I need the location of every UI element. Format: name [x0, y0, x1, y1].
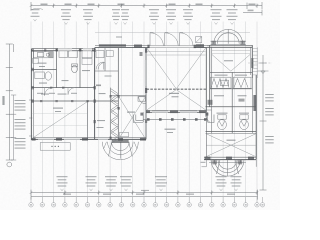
closet labels	[215, 75, 248, 76]
hall label	[41, 94, 67, 95]
deck posts	[147, 118, 207, 121]
washroom door arc	[98, 63, 105, 70]
washroom label	[97, 120, 106, 128]
left small vertical label	[2, 96, 4, 105]
interior wall: entry top y96	[110, 95, 146, 97]
wall blob left of living	[140, 52, 143, 56]
entrance step slab	[112, 140, 129, 143]
bedroom floor lines	[212, 50, 251, 53]
west wall posts	[145, 48, 147, 93]
closet left inner box	[221, 80, 229, 85]
exterior wall: left	[31, 49, 33, 140]
top bay planter right	[240, 41, 245, 45]
garage label	[227, 140, 236, 141]
bottom dimension tick slashes	[30, 191, 259, 194]
exterior wall: right lower	[252, 75, 256, 159]
entrance porch extra spokes	[104, 142, 138, 149]
corridor door arc right wing	[204, 110, 211, 122]
top annotation text stacks	[31, 9, 238, 24]
tatami mat lines	[32, 114, 87, 126]
garage mid line	[206, 144, 255, 146]
deck label	[165, 129, 176, 133]
right dashed reference line	[248, 62, 272, 64]
entry door arc	[139, 97, 146, 104]
wc fixture	[72, 64, 78, 73]
entry room diagonals	[119, 97, 145, 139]
exterior wall: right upper	[250, 45, 252, 78]
veranda edge	[40, 143, 70, 151]
right wing dark blob left	[208, 100, 213, 105]
interior wall: horizontal mid left wing	[32, 87, 95, 89]
window openings top wall left	[58, 48, 92, 51]
interior wall: vertical x56	[56, 49, 58, 88]
north door arc D2	[165, 33, 178, 46]
hall labels right wing	[214, 95, 247, 96]
kitchen counter	[34, 52, 54, 58]
top-right flag marker	[248, 10, 254, 12]
bottom dimension figures	[63, 190, 235, 195]
washroom box 2	[106, 51, 113, 57]
deck rail	[143, 112, 207, 122]
left grid bubble	[7, 162, 12, 167]
deck corner bracket left	[134, 115, 144, 123]
stair wall post	[117, 107, 119, 110]
closet right with hangers	[234, 77, 252, 88]
top bay window arc	[211, 29, 247, 44]
bedroom label	[224, 60, 233, 61]
small note above wall	[116, 37, 122, 38]
interior wall: washroom divider y71	[95, 70, 119, 72]
hall door arc 2	[68, 88, 75, 95]
stair label	[99, 93, 106, 94]
closet row 2 boxes	[82, 58, 92, 64]
left dimension line	[6, 44, 14, 160]
corridor washstand box	[96, 51, 104, 58]
north door arc D1	[150, 33, 163, 46]
washstand boxes	[59, 51, 92, 58]
living room ceiling slope upper V	[147, 48, 206, 89]
right level marker	[258, 71, 269, 74]
tatami room label	[53, 108, 63, 113]
hall extra labels	[37, 93, 77, 94]
closet label top	[82, 70, 90, 71]
left secondary dimension line	[11, 95, 16, 160]
bottom bay fan steps	[209, 160, 246, 177]
bath label	[39, 83, 47, 84]
exterior wall: bottom (left wing)	[31, 138, 146, 140]
grid: vertical module lines	[31, 22, 257, 197]
wall hatch segments	[32, 44, 257, 160]
kitchen below box	[33, 58, 39, 63]
entry shoe box	[120, 132, 129, 136]
bath unit	[35, 72, 52, 80]
living room void beam	[147, 88, 207, 90]
bottom dimension lines	[31, 190, 258, 200]
top wall posts	[44, 48, 93, 51]
interior wall: kitchen divider	[32, 69, 57, 71]
bottom annotation text stacks	[57, 176, 242, 191]
living room right wall x206	[205, 48, 207, 113]
right wall hatch upper	[251, 58, 253, 68]
entrance porch fan steps	[102, 142, 138, 160]
right dimension line	[260, 55, 267, 190]
paper grain overlay	[0, 0, 280, 210]
top dimension secondary line (right)	[243, 10, 262, 15]
exterior wall: top (left wing)	[32, 49, 95, 51]
right annotation text stacks	[265, 94, 274, 143]
wall: toilets bottom y131.6	[206, 132, 257, 134]
wc label	[62, 80, 69, 81]
toilet room labels	[217, 113, 250, 114]
living room ceiling slope lower V	[147, 90, 206, 110]
wall: divider x232	[231, 72, 233, 133]
wall: bedroom/closet y72.4	[210, 71, 253, 73]
interior wall: main vertical x94.5	[94, 48, 96, 140]
hall door arc	[45, 88, 53, 96]
wall: passage strip x206 lower	[205, 112, 207, 157]
eaves overhang line	[95, 31, 250, 33]
washroom marks	[96, 76, 112, 87]
right wing dark blob right	[239, 99, 245, 102]
toilet fixture T2	[240, 115, 249, 130]
bay-left window box	[196, 37, 202, 43]
bottom bay corner boxes	[212, 160, 242, 164]
corridor door arc	[96, 62, 104, 70]
living west wall opening	[145, 60, 147, 86]
top dimension figures on line	[41, 4, 256, 5]
veranda dots	[51, 146, 59, 147]
exterior wall: right wing left side	[210, 45, 212, 133]
arc row posts	[147, 45, 196, 48]
interior wall: entry right x146	[145, 48, 147, 140]
top bay planter left	[211, 41, 216, 45]
interior wall: vertical x80	[79, 49, 81, 88]
interior wall: washroom divider x105	[104, 48, 106, 71]
top dimension line	[31, 2, 262, 10]
left wall tick marks	[29, 100, 32, 137]
staircase break zigzag	[111, 89, 119, 144]
wall: closet bottom y88.8	[210, 88, 253, 90]
exterior wall: top (middle)	[95, 46, 207, 48]
window openings bottom wall	[38, 137, 108, 140]
entry room label	[127, 112, 135, 113]
entry niche box	[138, 97, 145, 102]
living south windows	[152, 111, 197, 113]
wall posts left wing	[31, 48, 147, 139]
living room bottom wall y112	[146, 110, 206, 112]
wall: toilets top y106.8	[206, 106, 257, 108]
sliding window band under arcs	[149, 45, 193, 48]
bottom grid bubbles	[29, 197, 265, 207]
kitchen counter dark end	[48, 52, 53, 58]
living room label	[169, 93, 179, 97]
kitchen label	[38, 63, 47, 67]
garage diagonals	[206, 134, 255, 157]
bedroom ceiling diagonals	[212, 54, 251, 71]
deck corner bracket right	[208, 115, 215, 123]
closet left with hangers	[211, 77, 232, 88]
deck bracket posts	[140, 113, 208, 116]
bottom wall corner tails	[202, 160, 257, 167]
corner label	[201, 162, 206, 163]
top dimension tick slashes	[30, 4, 259, 7]
toilet fixture T1	[218, 115, 227, 130]
tatami room diagonal	[33, 102, 87, 138]
living room floor lines	[147, 52, 206, 56]
interior wall: stair left x110	[109, 88, 111, 140]
interior wall: entry left x118	[117, 48, 119, 140]
north door arc D3	[180, 33, 193, 46]
stair rungs right edge	[252, 47, 257, 78]
exterior wall: top (right wing)	[207, 45, 253, 47]
exterior wall: bottom (right wing)	[204, 157, 256, 159]
interior wall: hall bottom y101	[32, 100, 119, 102]
left annotation text stacks	[15, 100, 26, 149]
interior wall: tatami right x87.5	[87, 101, 89, 139]
top-left leader arc	[31, 8, 44, 10]
